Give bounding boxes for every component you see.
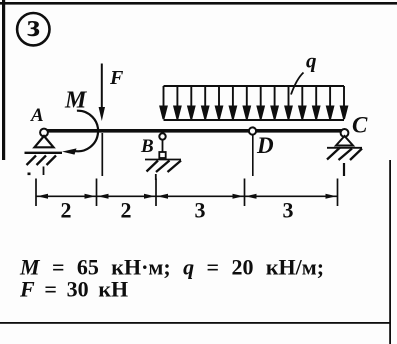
svg-text:q: q xyxy=(306,49,317,73)
right border line xyxy=(389,160,391,344)
support B hatching xyxy=(147,161,182,173)
dimension tick 3 xyxy=(155,179,157,207)
support B ground line xyxy=(145,159,181,161)
support B lower joint square xyxy=(159,152,165,158)
support C hatching xyxy=(327,148,362,161)
q leader line xyxy=(291,73,304,95)
dimension tick 4 xyxy=(244,179,246,207)
extension line below A xyxy=(43,167,45,176)
pin support A triangle xyxy=(35,136,54,147)
extension line below B xyxy=(155,174,157,180)
svg-text:B: B xyxy=(140,136,154,157)
svg-text:2: 2 xyxy=(61,198,72,223)
support B link rod xyxy=(162,140,164,153)
support A hatching xyxy=(27,156,57,166)
svg-text:A: A xyxy=(30,105,44,126)
dimension line xyxy=(36,195,338,197)
moment M arc xyxy=(73,111,98,152)
hinge D circle xyxy=(249,127,256,134)
pin support C circle xyxy=(341,129,349,137)
top border line xyxy=(0,2,397,5)
beam AC xyxy=(44,129,345,133)
support A ground line xyxy=(25,152,63,154)
svg-text:3: 3 xyxy=(195,198,206,223)
svg-text:2: 2 xyxy=(121,198,132,223)
force F arrow shaft xyxy=(101,64,103,111)
svg-text:D: D xyxy=(256,133,274,158)
distributed load q bottom line xyxy=(164,119,345,121)
dimension tick 2 xyxy=(96,179,98,207)
extension line below C xyxy=(343,163,345,176)
scan dot near A xyxy=(28,173,31,176)
moment M arrowhead xyxy=(62,148,77,154)
distributed load q top line xyxy=(164,85,345,87)
extension line below D xyxy=(252,135,254,176)
dimension tick 5 xyxy=(337,179,339,207)
support C ground line xyxy=(327,147,362,149)
extension line below F xyxy=(101,133,103,176)
svg-text:F = 30 кН: F = 30 кН xyxy=(19,276,128,301)
bottom border line xyxy=(0,322,390,324)
svg-text:з: з xyxy=(27,7,40,43)
svg-text:F: F xyxy=(109,67,124,89)
task number circle xyxy=(17,13,49,45)
pin support A circle xyxy=(40,129,48,137)
support B pin circle xyxy=(159,133,165,139)
force F arrowhead xyxy=(99,107,105,121)
distributed load q arrows xyxy=(160,86,347,119)
pin support C triangle xyxy=(336,136,353,146)
left border line xyxy=(2,0,5,160)
dimension arrowheads xyxy=(37,194,337,199)
svg-text:3: 3 xyxy=(283,198,294,223)
dimension tick 1 xyxy=(35,179,37,207)
svg-text:M: M xyxy=(64,87,88,113)
svg-text:C: C xyxy=(352,113,368,138)
